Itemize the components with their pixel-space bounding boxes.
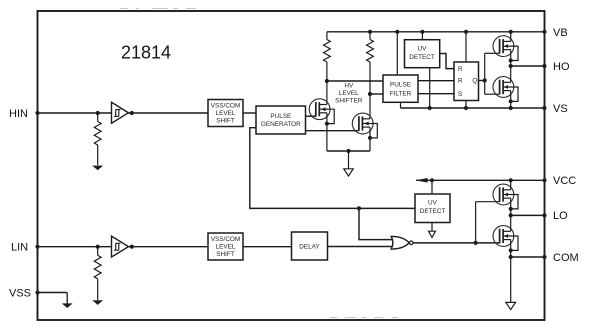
svg-text:VSS: VSS (9, 287, 31, 299)
svg-text:DETECT: DETECT (420, 208, 446, 215)
svg-text:VCC: VCC (553, 175, 576, 187)
svg-text:VSS/COM: VSS/COM (211, 102, 240, 109)
svg-text:DELAY: DELAY (299, 244, 320, 251)
svg-text:LEVEL: LEVEL (339, 90, 359, 97)
svg-text:LEVEL: LEVEL (216, 110, 236, 117)
svg-text:LO: LO (553, 210, 568, 222)
svg-text:LIN: LIN (11, 242, 28, 254)
svg-text:R: R (458, 78, 463, 85)
svg-text:HIN: HIN (9, 108, 28, 120)
svg-text:HO: HO (553, 61, 570, 73)
svg-text:SHIFT: SHIFT (216, 117, 235, 124)
svg-text:LEVEL: LEVEL (216, 243, 236, 250)
svg-text:FILTER: FILTER (390, 90, 412, 97)
svg-text:PULSE: PULSE (270, 113, 291, 120)
svg-text:UV: UV (428, 199, 438, 206)
svg-text:DETECT: DETECT (409, 54, 435, 61)
svg-text:SHIFT: SHIFT (216, 251, 235, 258)
svg-text:Q: Q (472, 78, 477, 85)
svg-text:21814: 21814 (121, 43, 171, 63)
svg-text:VS: VS (553, 103, 568, 115)
svg-text:S: S (458, 91, 462, 98)
svg-text:R: R (458, 66, 463, 73)
svg-text:GENERATOR: GENERATOR (261, 121, 301, 128)
svg-text:VB: VB (553, 27, 568, 39)
svg-text:VSS/COM: VSS/COM (211, 236, 240, 243)
svg-text:PULSE: PULSE (390, 81, 411, 88)
svg-text:SHIFTER: SHIFTER (335, 97, 363, 104)
svg-text:UV: UV (418, 46, 428, 53)
svg-text:COM: COM (553, 252, 579, 264)
svg-text:HV: HV (344, 82, 354, 89)
